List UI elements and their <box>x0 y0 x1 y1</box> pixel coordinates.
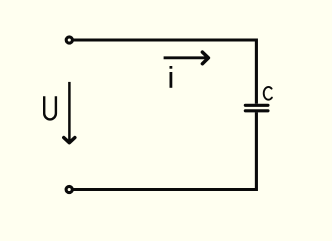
capacitor C1 bottom plate <box>245 109 268 112</box>
voltage arrow U (head) <box>64 138 75 143</box>
current arrow i (head) <box>202 52 208 64</box>
current arrow i (shaft) <box>164 56 207 59</box>
current label i <box>170 66 173 88</box>
wire right vertical lower + bottom horizontal <box>74 112 257 189</box>
wire top horizontal + right vertical upper <box>74 40 257 104</box>
voltage label U <box>44 96 56 119</box>
voltage arrow U (shaft) <box>68 82 71 142</box>
capacitor value label C <box>264 87 272 100</box>
capacitor C1 top plate <box>245 104 268 107</box>
terminal (bottom-left node) <box>66 186 72 192</box>
terminal (top-left node) <box>66 37 72 43</box>
